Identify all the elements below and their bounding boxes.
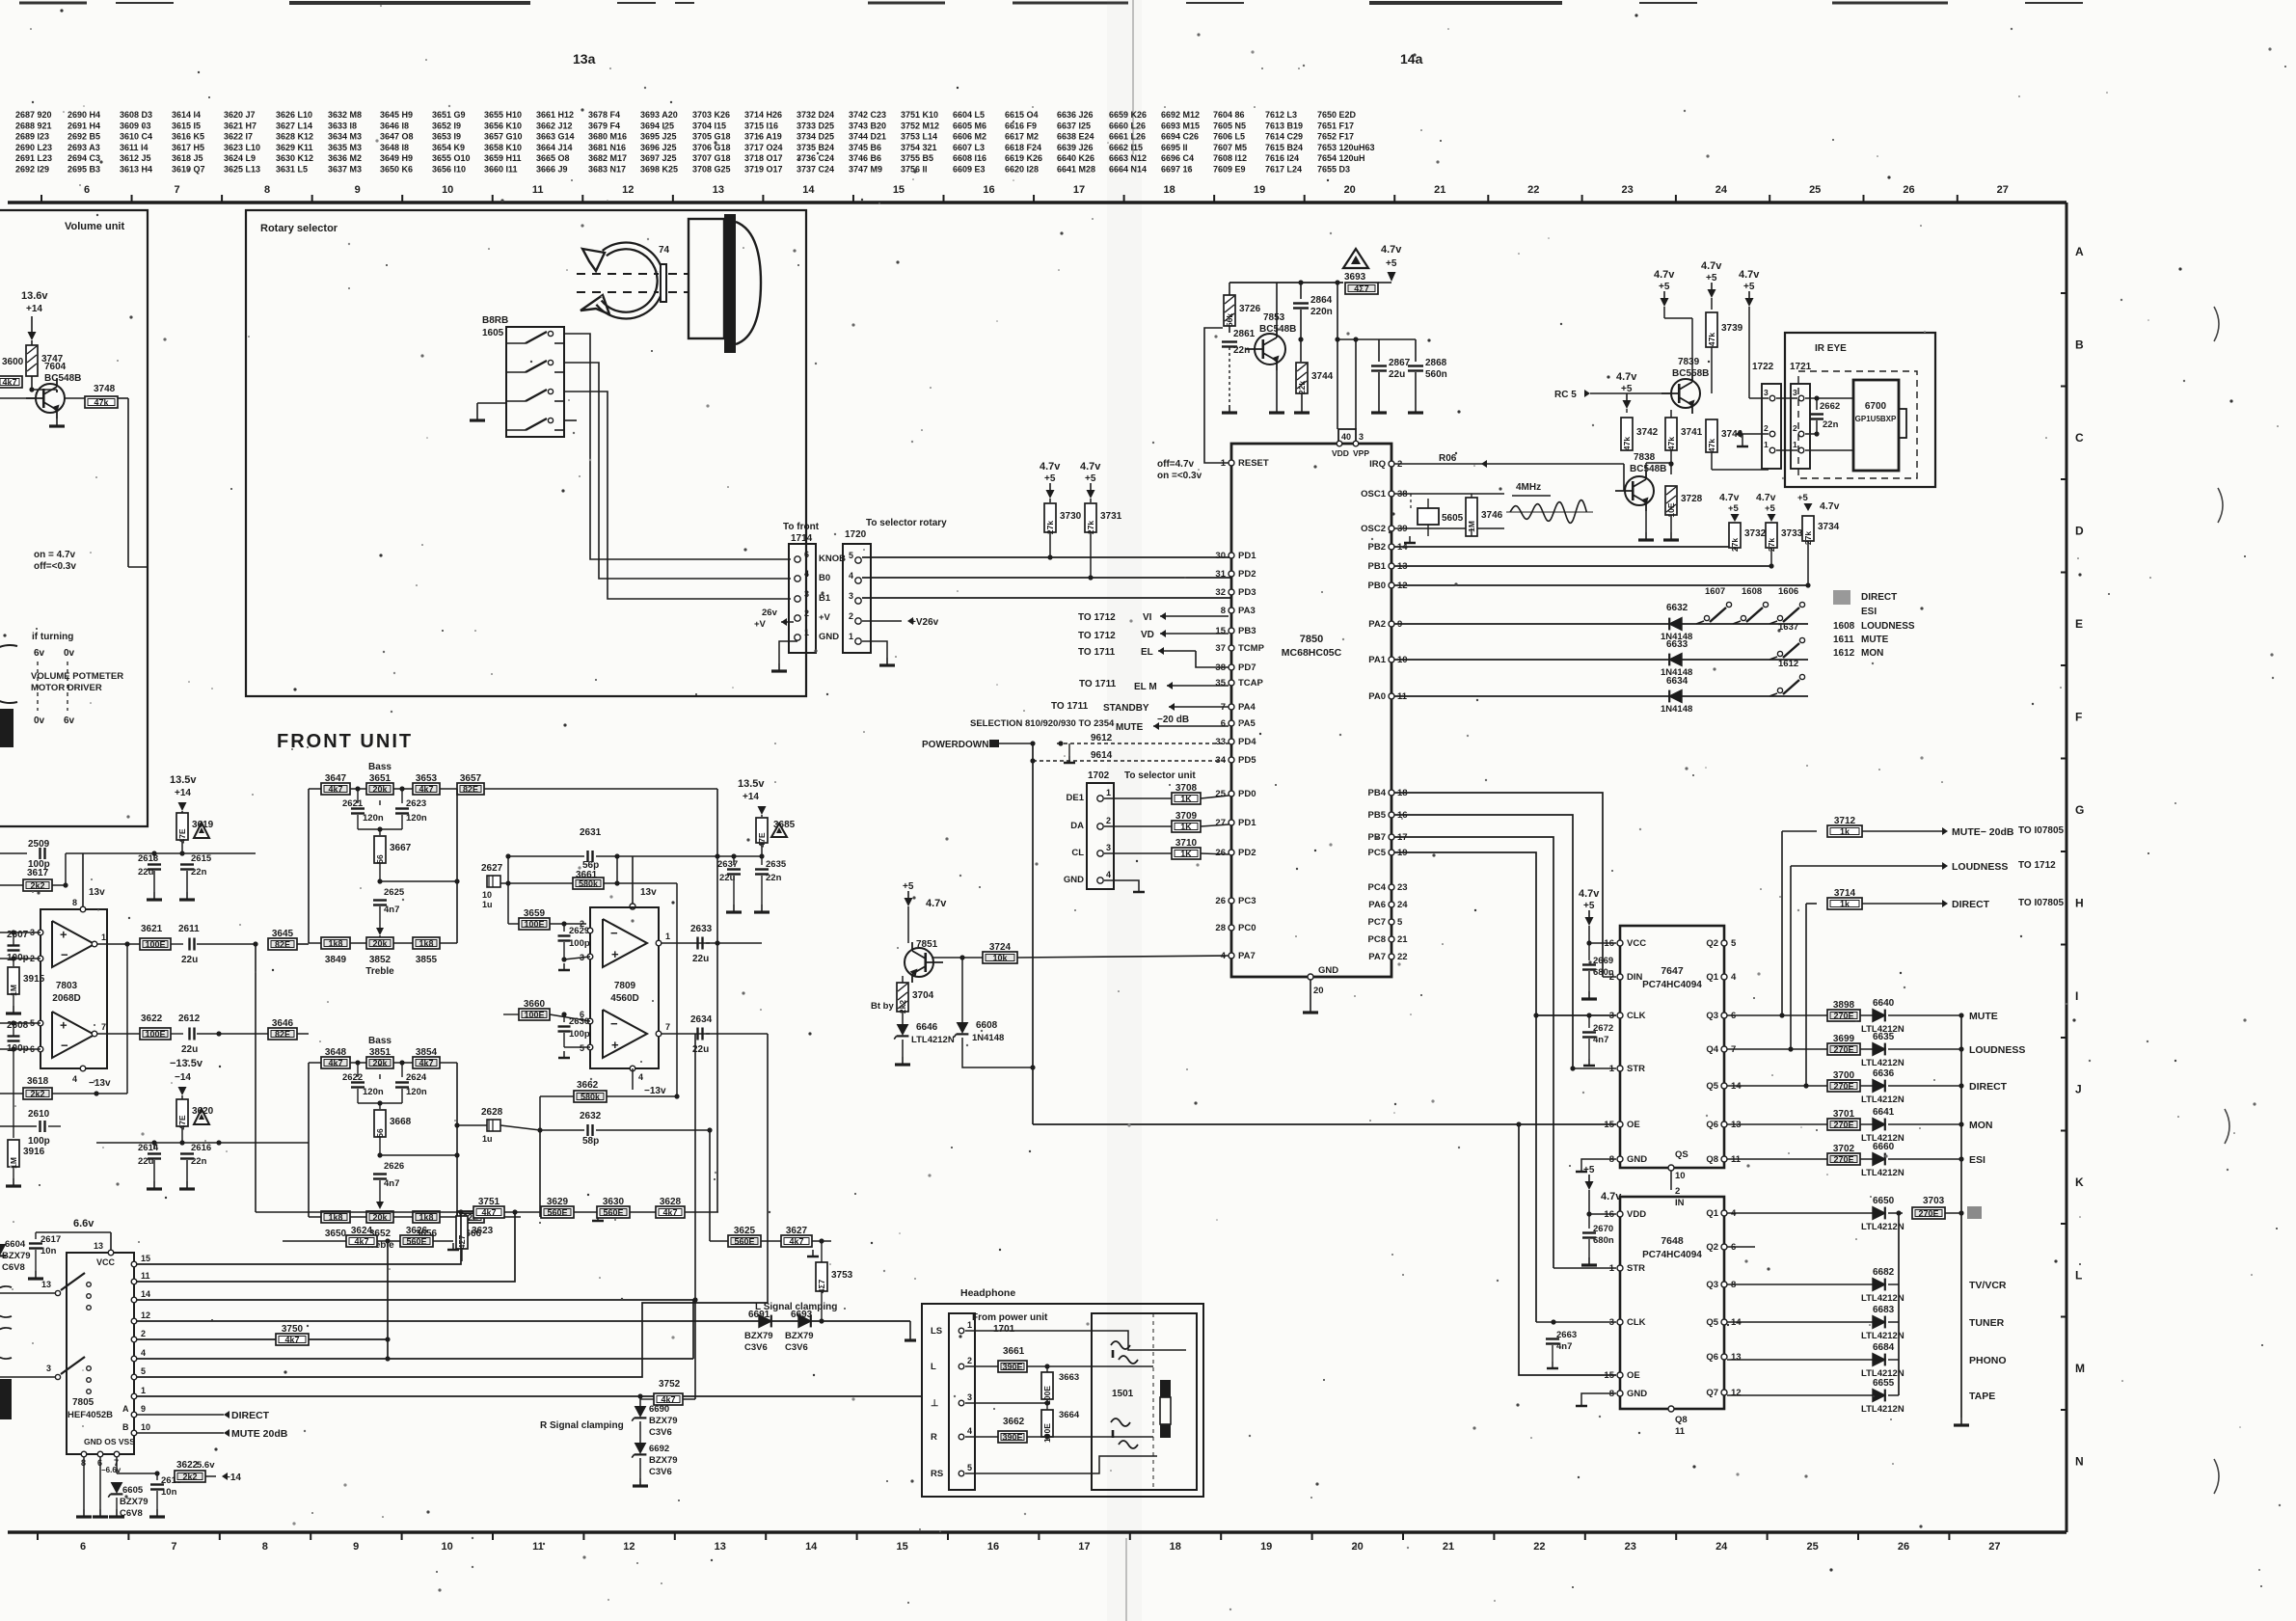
svg-text:2691 H4: 2691 H4: [68, 121, 100, 130]
svg-text:10n: 10n: [161, 1487, 177, 1498]
svg-text:PC74HC4094: PC74HC4094: [1642, 980, 1702, 990]
svg-text:1714: 1714: [791, 533, 813, 544]
treble row R: 3650 3652 3656 3666: [321, 1211, 350, 1223]
resistor 3740: [1706, 419, 1717, 452]
svg-text:19: 19: [1254, 184, 1265, 196]
7647 pin 6 Q3: [1721, 1013, 1727, 1018]
rotary selector box: [246, 210, 806, 696]
svg-text:3647: 3647: [325, 773, 347, 784]
capacitor 2637 22u: [733, 856, 735, 865]
capacitor 2662 22n: [1814, 395, 1819, 400]
svg-text:4: 4: [804, 569, 809, 579]
mcu pin 21 PC8: [1389, 936, 1394, 942]
svg-text:6617 M2: 6617 M2: [1005, 132, 1039, 142]
jack plug: [1160, 1380, 1171, 1397]
svg-text:20: 20: [1344, 184, 1356, 196]
svg-text:6646: 6646: [916, 1022, 938, 1033]
svg-text:12: 12: [623, 1541, 635, 1553]
svg-text:20k: 20k: [372, 1059, 388, 1068]
svg-text:3649 H9: 3649 H9: [380, 153, 413, 163]
svg-text:13.6v: 13.6v: [21, 290, 48, 302]
7647 pin 5 Q2: [1721, 940, 1727, 946]
ground: [477, 402, 506, 404]
svg-text:PHONO: PHONO: [1969, 1355, 2007, 1366]
svg-text:2692 I29: 2692 I29: [15, 165, 49, 175]
wire: [56, 390, 58, 392]
svg-text:MUTE: MUTE: [1116, 722, 1144, 733]
arrow LOUDNESS: [1791, 865, 1942, 867]
svg-text:3699: 3699: [1833, 1034, 1855, 1044]
resistor 3620 47E: [176, 1099, 188, 1126]
svg-text:4n7: 4n7: [1593, 1035, 1608, 1045]
svg-text:20k: 20k: [372, 785, 388, 795]
svg-text:4.7v: 4.7v: [926, 898, 947, 909]
svg-text:1: 1: [967, 1320, 972, 1330]
svg-text:56: 56: [375, 854, 385, 864]
svg-text:3628 K12: 3628 K12: [276, 132, 313, 142]
svg-text:58p: 58p: [582, 1136, 599, 1147]
svg-text:2630: 2630: [569, 1016, 589, 1027]
svg-text:1k8: 1k8: [328, 1213, 342, 1223]
svg-text:5: 5: [1731, 938, 1737, 949]
ground: [1588, 991, 1590, 999]
7648 QS pin: [1668, 1406, 1674, 1412]
svg-text:3752 M12: 3752 M12: [901, 121, 939, 130]
svg-text:TO 1712: TO 1712: [1078, 612, 1116, 623]
svg-text:LTL4212N: LTL4212N: [911, 1035, 955, 1045]
opamp 7809 box: [590, 907, 659, 1068]
svg-text:OSC1: OSC1: [1361, 489, 1387, 500]
grey box output: [1967, 1206, 1982, 1219]
svg-text:3653 I9: 3653 I9: [432, 132, 461, 142]
svg-text:9612: 9612: [1091, 733, 1113, 743]
svg-text:R06: R06: [1439, 453, 1457, 464]
svg-text:TCAP: TCAP: [1238, 678, 1264, 689]
svg-text:22n: 22n: [766, 873, 782, 883]
svg-text:3719 O17: 3719 O17: [744, 165, 783, 175]
svg-text:4k7: 4k7: [662, 1208, 677, 1218]
svg-text:ESI: ESI: [1861, 607, 1877, 617]
svg-text:3716 A19: 3716 A19: [744, 132, 782, 142]
svg-text:+5: +5: [903, 881, 914, 892]
mcu pin 18 PB4: [1389, 790, 1394, 796]
mcu pin 11 PA0: [1389, 693, 1394, 699]
svg-text:3697 J25: 3697 J25: [640, 153, 677, 163]
knob: [689, 219, 724, 338]
svg-text:OSC2: OSC2: [1361, 524, 1386, 534]
svg-text:B0: B0: [819, 573, 830, 583]
svg-text:13a: 13a: [573, 51, 596, 67]
svg-text:7: 7: [174, 184, 179, 196]
svg-text:1606: 1606: [1778, 586, 1798, 597]
svg-text:6683: 6683: [1873, 1305, 1895, 1315]
svg-text:2662: 2662: [1820, 401, 1840, 412]
wire PD1 row: [862, 556, 1231, 558]
capacitor 2617 10n: [35, 1232, 37, 1239]
svg-text:3608 D3: 3608 D3: [120, 110, 152, 120]
7805 pin 11: [131, 1279, 137, 1284]
svg-text:22n: 22n: [1823, 419, 1839, 430]
svg-text:3696 J25: 3696 J25: [640, 143, 677, 152]
svg-text:2632: 2632: [580, 1111, 602, 1121]
svg-text:6693 M15: 6693 M15: [1161, 121, 1200, 130]
wire feedback vertical right: [484, 788, 717, 790]
svg-text:M: M: [2075, 1362, 2085, 1375]
svg-text:3628: 3628: [660, 1197, 682, 1207]
svg-text:LTL4212N: LTL4212N: [1861, 1168, 1904, 1178]
7648 pin 1 STR: [1617, 1265, 1623, 1271]
svg-text:100E: 100E: [524, 920, 544, 930]
svg-text:RESET: RESET: [1238, 458, 1269, 469]
resistor 3699 270E: [1727, 1048, 1831, 1050]
svg-text:4.7v: 4.7v: [1579, 888, 1600, 900]
svg-text:6: 6: [804, 550, 809, 559]
mcu pin 26 PD2: [1229, 850, 1234, 855]
svg-text:BZX79: BZX79: [744, 1331, 773, 1341]
wires bass row R: [309, 1062, 321, 1064]
svg-text:MUTE− 20dB: MUTE− 20dB: [1952, 826, 2014, 838]
svg-text:PD0: PD0: [1238, 789, 1256, 799]
svg-text:2695 B3: 2695 B3: [68, 165, 100, 175]
svg-text:6692 M12: 6692 M12: [1161, 110, 1200, 120]
capacitor 2867 22u: [1371, 365, 1387, 366]
svg-text:2624: 2624: [406, 1072, 427, 1083]
svg-text:3629 K11: 3629 K11: [276, 143, 313, 152]
7648 pin 14 Q5: [1721, 1319, 1727, 1325]
svg-text:1605: 1605: [482, 328, 504, 338]
svg-text:2621: 2621: [342, 798, 364, 809]
svg-text:1608: 1608: [1742, 586, 1762, 597]
svg-text:2663: 2663: [1556, 1330, 1577, 1340]
svg-text:3655 O10: 3655 O10: [432, 153, 471, 163]
svg-text:6615 O4: 6615 O4: [1005, 110, 1039, 120]
resistor 3746: [1466, 498, 1477, 536]
svg-text:4MHz: 4MHz: [1516, 482, 1541, 493]
7648 pin 16 VDD: [1617, 1211, 1623, 1217]
svg-text:6696 C4: 6696 C4: [1161, 153, 1194, 163]
svg-text:7654 120uH: 7654 120uH: [1317, 153, 1365, 163]
svg-text:−: −: [610, 1016, 618, 1031]
svg-text:3701: 3701: [1833, 1109, 1855, 1120]
svg-text:3743 B20: 3743 B20: [849, 121, 886, 130]
svg-text:3717 O24: 3717 O24: [744, 143, 783, 152]
svg-text:4k7: 4k7: [419, 1059, 433, 1068]
svg-text:7: 7: [665, 1022, 670, 1032]
svg-text:VI: VI: [1143, 612, 1152, 623]
svg-text:6660 L26: 6660 L26: [1109, 121, 1146, 130]
7648 pin 8 Q3: [1721, 1282, 1727, 1287]
zener 6692 BZX79 C3V6: [635, 1443, 647, 1454]
7647 pin 8 GND: [1617, 1156, 1623, 1162]
svg-text:26: 26: [1903, 184, 1914, 196]
wire bus down: [255, 944, 257, 1212]
arrow DIRECT: [137, 1414, 224, 1416]
svg-text:3600: 3600: [2, 357, 24, 367]
svg-text:24: 24: [1715, 1541, 1728, 1553]
arrow DIRECT: [1806, 903, 1817, 905]
svg-text:120n: 120n: [363, 1087, 384, 1097]
svg-text:LS: LS: [931, 1326, 942, 1337]
gnd 7647: [1581, 1159, 1616, 1165]
svg-text:1k8: 1k8: [419, 939, 433, 949]
svg-text:3658 K10: 3658 K10: [484, 143, 522, 152]
svg-text:2616: 2616: [191, 1143, 211, 1153]
led 6646 LTL4212N: [902, 1012, 904, 1024]
svg-text:6604 L5: 6604 L5: [953, 110, 985, 120]
capacitor 2622 120n: [357, 1063, 359, 1077]
svg-text:−13v: −13v: [89, 1078, 111, 1089]
svg-text:35: 35: [1215, 678, 1226, 689]
bus 7805 p4: [137, 1358, 693, 1360]
wire osc1: [1394, 493, 1504, 495]
svg-text:3618 J5: 3618 J5: [172, 153, 203, 163]
svg-text:3: 3: [1764, 388, 1769, 397]
capacitor 2864 220n: [1300, 283, 1302, 299]
svg-text:3656 I10: 3656 I10: [432, 165, 466, 175]
svg-text:+5: +5: [1583, 1165, 1595, 1175]
svg-text:560E: 560E: [603, 1208, 623, 1218]
svg-text:3694 I25: 3694 I25: [640, 121, 674, 130]
svg-text:4k7: 4k7: [789, 1237, 803, 1247]
ground: [1276, 405, 1278, 413]
svg-text:PA4: PA4: [1238, 702, 1256, 713]
wire: [539, 1130, 541, 1217]
svg-text:3739: 3739: [1721, 323, 1743, 334]
svg-text:6633: 6633: [1666, 639, 1688, 650]
svg-text:560n: 560n: [1425, 369, 1447, 380]
svg-text:2607: 2607: [7, 930, 29, 940]
motor: [0, 645, 17, 703]
svg-text:7614 C29: 7614 C29: [1265, 132, 1303, 142]
svg-text:6619 K26: 6619 K26: [1005, 153, 1042, 163]
svg-text:13: 13: [1731, 1352, 1742, 1363]
svg-text:3648 I8: 3648 I8: [380, 143, 409, 152]
bus 7805 p14: [137, 1299, 693, 1301]
svg-text:Q4: Q4: [1706, 1044, 1718, 1055]
svg-text:IN: IN: [1675, 1198, 1685, 1208]
svg-text:Q7: Q7: [1706, 1388, 1718, 1398]
svg-text:32: 32: [1215, 587, 1226, 598]
svg-text:27: 27: [1997, 184, 2009, 196]
svg-text:3705 G18: 3705 G18: [692, 132, 731, 142]
7647 pin 14 Q5: [1721, 1083, 1727, 1089]
wire STR2: [1553, 1267, 1616, 1269]
svg-text:Q8: Q8: [1706, 1154, 1718, 1165]
svg-text:3718 O17: 3718 O17: [744, 153, 783, 163]
wire: [1645, 463, 1647, 471]
svg-text:12: 12: [1731, 1388, 1742, 1398]
svg-text:7617 L24: 7617 L24: [1265, 165, 1302, 175]
page top edge marks: [19, 2, 87, 5]
svg-text:C3V6: C3V6: [649, 1427, 672, 1438]
svg-text:20: 20: [1351, 1541, 1363, 1553]
svg-text:⊥: ⊥: [931, 1398, 939, 1409]
svg-text:27: 27: [1988, 1541, 2000, 1553]
wire PB0 row: [1394, 584, 1808, 586]
svg-text:560E: 560E: [734, 1237, 754, 1247]
svg-text:2868: 2868: [1425, 358, 1447, 368]
svg-text:3747 M9: 3747 M9: [849, 165, 882, 175]
svg-text:on = 4.7v: on = 4.7v: [34, 550, 76, 560]
ir eye box: [1785, 333, 1935, 487]
svg-text:3630: 3630: [603, 1197, 625, 1207]
resistor 3693: [1343, 249, 1368, 268]
svg-text:MUTE: MUTE: [1861, 635, 1889, 645]
ground: [733, 905, 735, 912]
svg-text:PB0: PB0: [1368, 581, 1386, 591]
svg-text:580k: 580k: [581, 1093, 601, 1102]
crystal 5605: [1410, 494, 1412, 508]
svg-text:7803: 7803: [56, 981, 78, 991]
svg-text:390E: 390E: [1002, 1363, 1022, 1372]
7805 pin 5: [131, 1374, 137, 1380]
svg-text:4Σ7: 4Σ7: [457, 1234, 467, 1249]
svg-text:6605: 6605: [122, 1485, 144, 1496]
svg-text:7655 D3: 7655 D3: [1317, 165, 1350, 175]
margin curve marks: [2214, 307, 2219, 341]
svg-text:3662 J12: 3662 J12: [536, 121, 573, 130]
mcu pin 25 PD0: [1229, 791, 1234, 797]
7647 pin 3 CLK: [1617, 1013, 1623, 1018]
svg-text:4.7v: 4.7v: [1381, 244, 1402, 256]
svg-text:26: 26: [1215, 848, 1226, 858]
svg-text:3663: 3663: [1059, 1372, 1079, 1383]
wire pin2 gnd: [1742, 434, 1769, 440]
svg-text:LTL4212N: LTL4212N: [1861, 1058, 1904, 1068]
svg-text:4: 4: [72, 1074, 77, 1084]
resistor 3659 100E: [519, 918, 550, 930]
svg-text:22u: 22u: [719, 873, 736, 883]
svg-text:2608: 2608: [7, 1020, 29, 1031]
wires bass row L: [309, 788, 321, 790]
svg-text:10: 10: [441, 1541, 452, 1553]
wire powerdown vertical: [1032, 743, 1034, 1124]
svg-text:3646: 3646: [272, 1018, 294, 1029]
mcu pin 10 PA1: [1389, 657, 1394, 662]
mcu pin 38 PD7: [1229, 664, 1234, 670]
svg-text:3660 I11: 3660 I11: [484, 165, 518, 175]
svg-text:120n: 120n: [363, 813, 384, 824]
svg-text:6608: 6608: [976, 1020, 998, 1031]
ground: [1301, 405, 1303, 413]
svg-text:3611 I4: 3611 I4: [120, 143, 149, 152]
svg-text:VDD: VDD: [1627, 1209, 1646, 1220]
svg-text:6682: 6682: [1873, 1267, 1895, 1278]
svg-text:270E: 270E: [1918, 1209, 1938, 1219]
svg-text:B: B: [2075, 338, 2084, 352]
svg-text:3898: 3898: [1833, 1000, 1855, 1011]
svg-text:3631 L5: 3631 L5: [276, 165, 308, 175]
svg-text:PD1: PD1: [1238, 551, 1256, 561]
wires treble row R: [309, 1216, 321, 1218]
svg-text:MC68HC05C: MC68HC05C: [1282, 647, 1342, 659]
svg-text:3623 L10: 3623 L10: [224, 143, 260, 152]
svg-text:6: 6: [84, 184, 90, 196]
svg-text:2: 2: [580, 919, 584, 929]
svg-text:VPP: VPP: [1353, 448, 1369, 458]
mcu pin 9 PA2: [1389, 621, 1394, 627]
svg-text:5.6v: 5.6v: [197, 1460, 215, 1471]
svg-text:3726: 3726: [1239, 304, 1261, 314]
svg-text:TO 1712: TO 1712: [1078, 631, 1116, 641]
switch 1605 pole 4: [506, 429, 526, 431]
resistor 3709 1K: [1104, 825, 1173, 827]
mcu 7850 MC68HC05C: [1231, 444, 1391, 977]
resistor 3753 vertical: [816, 1262, 827, 1291]
svg-text:5: 5: [1397, 917, 1403, 928]
capacitor 2613 22u: [153, 853, 155, 860]
svg-text:2: 2: [1764, 423, 1769, 433]
svg-text:3714: 3714: [1834, 888, 1856, 899]
svg-text:3650: 3650: [325, 1229, 347, 1239]
arrow MUTE-20dB: [1782, 830, 1817, 832]
capacitor 2623 120n: [401, 789, 403, 803]
svg-text:8: 8: [262, 1541, 268, 1553]
svg-text:3746 B6: 3746 B6: [849, 153, 881, 163]
svg-text:120n: 120n: [406, 813, 427, 824]
zener 6690 BZX79 C3V6: [639, 1396, 641, 1406]
svg-text:3: 3: [849, 591, 853, 601]
svg-text:3693: 3693: [1344, 272, 1366, 283]
svg-text:3733 D25: 3733 D25: [797, 121, 834, 130]
svg-text:30: 30: [1215, 551, 1226, 561]
ground: [1670, 532, 1672, 540]
svg-text:6608 I16: 6608 I16: [953, 153, 986, 163]
svg-text:−: −: [61, 1039, 68, 1053]
svg-text:3663 G14: 3663 G14: [536, 132, 575, 142]
ground: [1645, 511, 1647, 532]
svg-text:3: 3: [1359, 432, 1364, 442]
svg-text:TUNER: TUNER: [1969, 1317, 2005, 1329]
wire: [387, 1241, 389, 1359]
svg-text:6609 E3: 6609 E3: [953, 165, 986, 175]
svg-text:40: 40: [1341, 432, 1351, 442]
svg-text:3751: 3751: [478, 1197, 500, 1207]
7805 pin 4: [131, 1356, 137, 1362]
svg-text:3741: 3741: [1681, 427, 1703, 438]
ground: [1960, 1418, 1962, 1425]
supply 4.7v over 7839: [1661, 298, 1669, 307]
svg-text:2615: 2615: [191, 853, 212, 864]
svg-text:1611: 1611: [1833, 635, 1854, 645]
+V26v arrow: [862, 620, 902, 622]
svg-text:7616 I24: 7616 I24: [1265, 153, 1299, 163]
svg-text:13v: 13v: [640, 887, 657, 898]
svg-text:6641: 6641: [1873, 1107, 1895, 1118]
svg-text:4.7v: 4.7v: [1654, 269, 1675, 281]
svg-text:Rotary selector: Rotary selector: [260, 223, 338, 234]
svg-text:3708: 3708: [1175, 783, 1198, 794]
svg-text:3693 A20: 3693 A20: [640, 110, 678, 120]
svg-text:B8RB: B8RB: [482, 315, 508, 326]
svg-text:TO I07805: TO I07805: [2018, 898, 2065, 908]
svg-text:1u: 1u: [482, 1134, 493, 1144]
svg-text:13v: 13v: [89, 887, 105, 898]
svg-text:1607: 1607: [1705, 586, 1725, 597]
svg-text:4.7v: 4.7v: [1756, 492, 1776, 503]
svg-text:Q8: Q8: [1675, 1415, 1688, 1425]
ground: [35, 1271, 37, 1279]
svg-text:4k7: 4k7: [328, 1059, 342, 1068]
diode 6608 1N4148: [961, 958, 963, 1022]
wire PA1 row: [1394, 659, 1808, 661]
svg-text:3646 I8: 3646 I8: [380, 121, 409, 130]
ground: [1588, 1257, 1590, 1265]
svg-text:22u: 22u: [138, 867, 154, 878]
svg-text:47k: 47k: [1707, 439, 1716, 452]
svg-text:1: 1: [141, 1386, 146, 1395]
svg-text:C3V6: C3V6: [785, 1342, 808, 1353]
